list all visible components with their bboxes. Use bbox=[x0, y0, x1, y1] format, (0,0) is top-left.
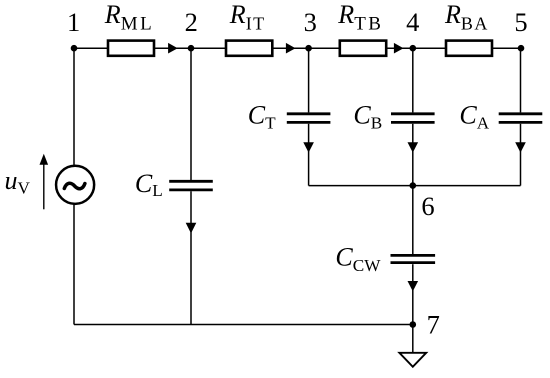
svg-text:7: 7 bbox=[427, 309, 440, 339]
svg-text:6: 6 bbox=[421, 191, 434, 221]
svg-text:4: 4 bbox=[406, 7, 419, 37]
svg-text:1: 1 bbox=[67, 7, 80, 37]
svg-text:2: 2 bbox=[185, 7, 198, 37]
svg-text:3: 3 bbox=[304, 7, 317, 37]
svg-text:5: 5 bbox=[514, 7, 527, 37]
